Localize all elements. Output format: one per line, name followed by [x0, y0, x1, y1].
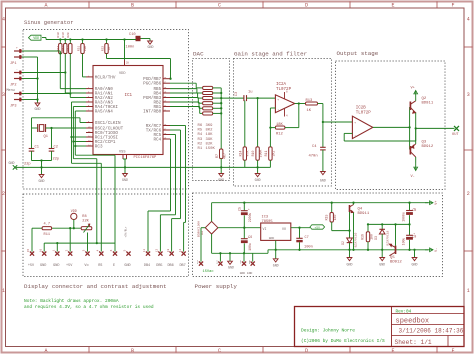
wire JP3 to RA2 — [22, 93, 70, 95]
rectifier D1 bridge — [205, 221, 218, 234]
wire RC1 tap — [72, 136, 87, 138]
wire bridge to regulator — [218, 227, 261, 229]
svg-text:GND: GND — [9, 161, 15, 165]
wire Q5 base — [395, 224, 397, 245]
wire C3 to op-amp — [247, 97, 276, 99]
svg-text:+: + — [248, 208, 250, 211]
connector JP3 — [14, 93, 22, 95]
wire crystal caps to ground — [32, 160, 52, 162]
wire VDD to IC — [124, 40, 126, 61]
node V- rail psu right — [268, 249, 428, 251]
svg-text:E: E — [391, 3, 394, 9]
supply flag V+ output stage — [415, 91, 417, 99]
svg-text:R10: R10 — [251, 151, 255, 157]
svg-text:V-: V- — [435, 248, 439, 252]
pins IC1 right — [163, 78, 170, 80]
svg-text:BD911: BD911 — [358, 212, 370, 216]
resistor R22 — [105, 44, 108, 54]
wire gnd pads chain — [44, 242, 115, 244]
svg-text:Output stage: Output stage — [337, 50, 379, 57]
wire VSS to ground — [123, 158, 127, 160]
svg-text:C8: C8 — [413, 208, 417, 212]
svg-text:V+: V+ — [435, 201, 439, 205]
wires RC4-RC7 to staircase — [169, 138, 172, 140]
pins IC1 VSS bottom — [122, 154, 124, 159]
svg-text:1000u: 1000u — [402, 212, 406, 222]
svg-text:R18: R18 — [57, 32, 60, 38]
resistor R10 bias — [256, 147, 259, 160]
svg-text:3K9: 3K9 — [206, 124, 214, 128]
svg-text:100n: 100n — [126, 46, 135, 50]
svg-text:GND: GND — [320, 179, 326, 183]
svg-text:4: 4 — [467, 16, 470, 22]
svg-text:R3: R3 — [198, 138, 203, 142]
svg-text:D: D — [305, 348, 308, 354]
svg-text:Menu: Menu — [7, 89, 15, 93]
ground GND C4 — [321, 172, 326, 175]
resistor R18 pull-up — [59, 44, 62, 54]
svg-text:C1: C1 — [35, 146, 40, 150]
ground GND C9 — [414, 250, 416, 258]
ground GND DAC — [219, 174, 224, 177]
capacitor C9 — [409, 224, 411, 235]
svg-text:Q1: Q1 — [44, 135, 49, 139]
transistor Q2 BD911 — [409, 102, 411, 111]
wire C10 to GND — [135, 39, 138, 41]
section box Gain stage and filter — [234, 59, 332, 187]
svg-text:GND GND: GND GND — [240, 272, 253, 275]
svg-text:R21: R21 — [77, 46, 80, 52]
output flag OUT — [454, 126, 459, 131]
svg-text:GND: GND — [122, 178, 128, 182]
svg-text:100K: 100K — [259, 150, 263, 158]
svg-text:D3: D3 — [374, 236, 378, 240]
svg-text:Rev:04: Rev:04 — [396, 310, 412, 315]
svg-text:4: 4 — [2, 16, 5, 22]
svg-text:DB5: DB5 — [156, 264, 162, 268]
svg-text:RC3: RC3 — [95, 145, 103, 150]
svg-text:R13: R13 — [306, 99, 314, 103]
resistor R20 pull-up — [69, 44, 72, 54]
svg-text:Q4: Q4 — [358, 208, 363, 212]
resistor R11 backlight — [42, 227, 52, 230]
svg-text:15: 15 — [27, 249, 30, 253]
svg-text:1: 1 — [467, 288, 470, 294]
svg-text:GND: GND — [124, 264, 130, 268]
svg-text:47K: 47K — [246, 151, 250, 157]
svg-text:Q3: Q3 — [422, 141, 427, 145]
ground GND D3 — [381, 250, 383, 258]
wire pad b — [252, 253, 254, 261]
svg-text:C5: C5 — [237, 207, 241, 211]
svg-text:D2: D2 — [341, 241, 345, 245]
svg-text:3: 3 — [2, 92, 5, 98]
svg-text:DB6: DB6 — [167, 264, 173, 268]
capacitor C7 — [299, 228, 301, 239]
wire Q3 collector to V- — [415, 157, 417, 163]
capacitor C10 — [136, 36, 141, 41]
title block divider — [391, 307, 393, 347]
pins IC1 left — [86, 76, 93, 78]
svg-text:C2: C2 — [54, 146, 58, 150]
op-amp IC2B — [352, 116, 372, 138]
svg-text:RA5/AN4: RA5/AN4 — [95, 110, 113, 115]
svg-text:JP1: JP1 — [10, 62, 16, 66]
svg-text:11: 11 — [143, 249, 146, 253]
wires IC to DAC ladder — [170, 82, 196, 84]
resistor R11 gain — [269, 147, 272, 160]
diode D3 zener — [381, 224, 383, 229]
svg-text:AC2: AC2 — [216, 259, 219, 264]
wire ground chain JP pins — [22, 56, 38, 58]
svg-text:R19: R19 — [62, 32, 65, 38]
resistor R14 bias — [243, 147, 246, 160]
transistor Q4 BD911 — [349, 205, 351, 212]
svg-text:JP3: JP3 — [10, 105, 16, 109]
wire OSC2 net — [46, 127, 87, 129]
resistor R21 MCLR pull-up — [81, 44, 84, 54]
svg-text:B: B — [131, 348, 134, 354]
ground GND crystal — [39, 175, 44, 178]
svg-text:(C)2006 by DuMo Electronics I/: (C)2006 by DuMo Electronics I/S — [301, 338, 385, 344]
svg-text:INT/RB0: INT/RB0 — [143, 110, 161, 115]
connector JP1 — [14, 50, 22, 52]
svg-text:VDD: VDD — [71, 210, 77, 214]
wire DAC output — [221, 97, 244, 99]
svg-text:RS: RS — [98, 264, 102, 268]
capacitor C5 — [243, 203, 245, 211]
svg-text:VDD: VDD — [33, 36, 39, 40]
ground GND psu mid — [229, 253, 231, 261]
svg-text:4.7: 4.7 — [44, 222, 50, 226]
capacitor C1 — [31, 128, 33, 149]
svg-text:GND: GND — [39, 179, 45, 183]
wire bridge minus — [211, 234, 213, 253]
node GND rail — [16, 166, 270, 168]
svg-text:12: 12 — [156, 249, 159, 253]
svg-text:100n: 100n — [304, 246, 313, 250]
frame column ticks — [88, 2, 90, 9]
wire R7 to ground — [220, 159, 222, 174]
svg-text:RC4: RC4 — [153, 138, 161, 143]
node GND rail psu left — [212, 252, 268, 254]
capacitor C2 — [51, 128, 53, 149]
title block border — [295, 307, 465, 347]
svg-text:1u: 1u — [248, 91, 253, 95]
node base line — [409, 107, 411, 150]
svg-text:R14: R14 — [238, 151, 242, 157]
wire VDD rail — [42, 37, 46, 39]
svg-text:+5V/BL+: +5V/BL+ — [124, 226, 128, 237]
wire regulator ground — [275, 240, 277, 258]
connector pads display — [30, 252, 34, 256]
wire pad a — [243, 253, 245, 261]
svg-text:R12: R12 — [276, 132, 284, 136]
wire D2 to rail — [349, 243, 351, 250]
svg-text:D: D — [305, 3, 308, 9]
ground GND D2 — [349, 250, 351, 258]
svg-text:180: 180 — [333, 215, 337, 221]
wire OSC1 net — [32, 127, 38, 129]
svg-text:C6: C6 — [248, 235, 252, 239]
wire AC1 — [200, 228, 202, 262]
connector pad AC1 — [199, 262, 203, 266]
ground GND regulator — [273, 259, 278, 262]
svg-text:V-: V- — [411, 175, 415, 179]
svg-text:R2: R2 — [198, 142, 203, 146]
supply flag V- rail — [425, 249, 433, 251]
svg-text:MCLR/THV: MCLR/THV — [95, 75, 116, 80]
wire op-amp to bases — [373, 126, 410, 128]
svg-text:R6: R6 — [198, 124, 203, 128]
svg-text:Gain stage and filter: Gain stage and filter — [234, 51, 307, 58]
svg-text:C4: C4 — [312, 145, 317, 149]
svg-text:4K7: 4K7 — [222, 153, 226, 159]
capacitor C3 — [243, 95, 245, 101]
wire bias divider — [244, 101, 246, 147]
svg-text:BD911: BD911 — [422, 102, 434, 106]
svg-text:15Vac: 15Vac — [203, 270, 214, 274]
wire regulator output — [291, 227, 310, 229]
svg-text:R22: R22 — [101, 46, 104, 52]
svg-text:+5V: +5V — [28, 264, 35, 268]
svg-text:Power supply: Power supply — [195, 283, 238, 290]
svg-text:GND: GND — [248, 259, 251, 264]
svg-text:2: 2 — [2, 191, 5, 197]
wire trimmer wiper to Vo — [87, 233, 89, 252]
svg-text:GND: GND — [228, 266, 234, 270]
svg-text:2: 2 — [467, 191, 470, 197]
svg-text:GND: GND — [35, 107, 41, 111]
wire R16 bottom — [367, 242, 369, 250]
wire to R10 — [257, 98, 259, 147]
svg-text:3/11/2006 18:47:36: 3/11/2006 18:47:36 — [399, 328, 464, 335]
supply flag VDD — [29, 35, 42, 40]
svg-text:Q5: Q5 — [390, 256, 395, 260]
svg-text:IC2A: IC2A — [276, 83, 287, 87]
crystal Q1 — [37, 124, 39, 132]
svg-text:22K: 22K — [82, 219, 89, 223]
node V+ rail — [212, 202, 428, 204]
resistor R16 — [367, 224, 369, 231]
svg-text:and requires 4.3V, so a 4.7 oh: and requires 4.3V, so a 4.7 ohm resistor… — [24, 304, 154, 310]
svg-text:2200u: 2200u — [248, 213, 252, 223]
svg-text:BD912: BD912 — [390, 261, 402, 265]
svg-text:GND: GND — [412, 263, 418, 267]
wire op-amp output — [295, 103, 306, 105]
resistor R12 feedback — [275, 126, 285, 129]
svg-text:100u: 100u — [248, 243, 252, 251]
svg-text:GND: GND — [273, 264, 279, 268]
svg-text:PIC16F876P: PIC16F876P — [134, 156, 158, 160]
svg-text:VI: VI — [263, 227, 267, 231]
pin IC1 VDD top — [124, 60, 126, 66]
wire JP1 to RA0 — [22, 50, 60, 52]
svg-text:PGC/RB6: PGC/RB6 — [143, 82, 161, 87]
svg-text:GND: GND — [40, 264, 46, 268]
wire RC3 tap — [75, 145, 86, 147]
svg-text:13: 13 — [167, 249, 170, 253]
svg-text:16: 16 — [39, 249, 42, 253]
svg-text:150K: 150K — [206, 147, 216, 151]
svg-text:speedbox: speedbox — [396, 317, 430, 325]
section box DAC — [193, 59, 230, 181]
wire VDD stem — [73, 220, 75, 229]
svg-text:R20: R20 — [67, 32, 70, 38]
wire inverting input — [270, 107, 275, 109]
connector pad 5V out a — [242, 262, 246, 266]
svg-text:GND: GND — [347, 263, 353, 267]
svg-text:AC1: AC1 — [196, 259, 199, 264]
wire backlight line — [32, 227, 42, 229]
svg-text:+: + — [16, 47, 18, 50]
resistors DAC ladder R6-R1 — [203, 86, 213, 89]
svg-text:14: 14 — [179, 249, 182, 253]
svg-text:IC2B: IC2B — [356, 107, 367, 111]
wire Q4 base chain — [349, 212, 351, 238]
svg-text:39K: 39K — [206, 138, 214, 142]
svg-text:GND: GND — [379, 263, 385, 267]
svg-text:R4: R4 — [198, 133, 203, 137]
supply flag +5V — [310, 225, 325, 229]
svg-text:R1: R1 — [198, 147, 203, 151]
svg-text:+5V: +5V — [239, 259, 242, 264]
pins IC2A power — [284, 92, 286, 99]
svg-text:GND: GND — [255, 178, 261, 182]
svg-text:C3: C3 — [235, 92, 239, 96]
svg-text:Q2: Q2 — [422, 97, 427, 101]
svg-text:1K: 1K — [108, 47, 111, 51]
section box Sinus generator — [23, 30, 189, 190]
wires DB staircase — [170, 139, 172, 211]
svg-text:+5V: +5V — [66, 264, 73, 268]
supply flag V- output stage — [415, 163, 417, 171]
svg-text:GND: GND — [53, 264, 59, 268]
svg-text:Sheet: 1/1: Sheet: 1/1 — [395, 339, 432, 346]
wire bridge plus — [211, 203, 213, 222]
svg-text:82K: 82K — [206, 142, 214, 146]
ground GND at C10 — [148, 41, 153, 44]
svg-text:10K: 10K — [84, 46, 87, 52]
resistor R15 — [331, 203, 333, 213]
svg-text:4K7: 4K7 — [67, 46, 70, 52]
connector pad 5V out b — [251, 262, 255, 266]
svg-text:B: B — [131, 3, 134, 9]
svg-text:-: - — [277, 107, 279, 111]
svg-text:R15: R15 — [324, 215, 328, 221]
svg-text:D1: D1 — [200, 231, 204, 235]
svg-text:B380C1500: B380C1500 — [197, 221, 200, 237]
svg-text:A: A — [44, 348, 47, 354]
diode D2 zener — [347, 238, 353, 243]
wire AC2 — [219, 253, 221, 261]
wire R22 to RB7 — [106, 54, 108, 59]
wire R13 to output stage — [318, 103, 323, 105]
svg-text:VSS: VSS — [119, 150, 125, 154]
wires DAC summing node — [213, 87, 222, 89]
svg-text:C10: C10 — [129, 33, 136, 37]
svg-text:+5V: +5V — [314, 226, 320, 229]
svg-text:8K2: 8K2 — [206, 129, 214, 133]
frame row ticks — [2, 46, 6, 48]
capacitor C4 filter — [322, 122, 324, 147]
svg-text:OUT: OUT — [452, 133, 459, 137]
svg-text:Design: Johnny Norre: Design: Johnny Norre — [301, 328, 355, 334]
resistor R13 — [306, 102, 318, 105]
svg-text:Display connector and contrast: Display connector and contrast adjustmen… — [24, 283, 167, 290]
svg-text:Vo: Vo — [84, 264, 88, 268]
svg-text:BZX79C18: BZX79C18 — [386, 230, 390, 245]
svg-text:DB4: DB4 — [144, 264, 150, 268]
wire MCLR pull-up — [82, 54, 84, 77]
svg-text:IC1: IC1 — [125, 94, 133, 98]
wire feedback output stage — [344, 132, 352, 134]
svg-text:C: C — [218, 3, 221, 9]
svg-text:-: - — [16, 68, 18, 71]
wire Q4 collector — [353, 203, 355, 205]
wire JP2 to RA1 — [22, 72, 65, 74]
svg-text:-: - — [354, 133, 356, 137]
wire net RS to display — [72, 101, 87, 103]
svg-text:R5: R5 — [198, 129, 203, 133]
svg-text:BZX79C10: BZX79C10 — [354, 232, 358, 247]
svg-text:22p: 22p — [53, 158, 60, 162]
wire output net — [416, 127, 455, 129]
svg-text:DAC: DAC — [193, 51, 204, 58]
resistor R7 — [220, 149, 223, 159]
svg-text:2K2: 2K2 — [271, 151, 275, 157]
ground GND under IC — [123, 174, 128, 177]
svg-text:22p: 22p — [24, 163, 31, 167]
op IC1 box PIC16F876P — [93, 66, 163, 155]
supply symbol VDD display — [71, 213, 77, 219]
svg-text:78S05: 78S05 — [262, 220, 273, 224]
svg-text:100: 100 — [369, 234, 373, 240]
svg-text:TL072P: TL072P — [276, 88, 292, 92]
supply flag V+ rail — [425, 202, 433, 204]
section box Display connector — [23, 194, 189, 277]
svg-text:OSC1/CLKIN: OSC1/CLKIN — [95, 121, 121, 126]
wire Q4 emitter down — [353, 213, 355, 250]
svg-text:BD912: BD912 — [422, 145, 434, 149]
svg-text:C: C — [218, 348, 221, 354]
svg-text:A: A — [44, 3, 47, 9]
svg-text:C7: C7 — [305, 236, 309, 240]
svg-text:1: 1 — [2, 288, 5, 294]
svg-text:GND: GND — [148, 45, 154, 49]
svg-text:3: 3 — [467, 92, 470, 98]
ground GND gain stage — [255, 174, 260, 177]
svg-text:V+: V+ — [411, 87, 415, 91]
svg-text:DB7: DB7 — [179, 264, 185, 268]
svg-text:4K7: 4K7 — [62, 46, 65, 52]
svg-text:R11: R11 — [264, 151, 268, 157]
svg-text:E: E — [391, 348, 394, 354]
transistor Q5 BD912 — [395, 246, 397, 254]
svg-text:R16: R16 — [361, 234, 365, 240]
transistor Q3 BD912 — [409, 146, 411, 155]
svg-text:E: E — [113, 264, 115, 268]
svg-text:GND: GND — [218, 178, 224, 182]
svg-text:C9: C9 — [413, 235, 417, 239]
op IC3 regulator 7805 — [261, 223, 291, 240]
svg-text:VDD: VDD — [119, 72, 125, 76]
svg-text:Note: Backlight draws approx.: Note: Backlight draws approx. 200mA — [24, 298, 119, 304]
svg-text:R11: R11 — [44, 233, 50, 237]
svg-text:18K: 18K — [276, 123, 284, 127]
resistor R19 pull-up — [64, 44, 67, 54]
svg-text:GND: GND — [269, 236, 275, 240]
